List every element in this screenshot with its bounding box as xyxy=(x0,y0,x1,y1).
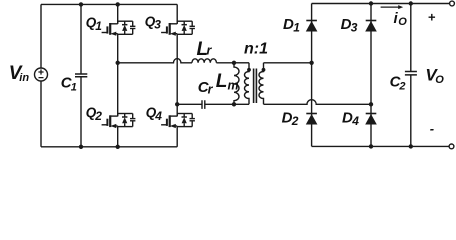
left rail upper xyxy=(40,4,42,68)
current arrow iO xyxy=(381,6,401,8)
wire Q3 source to node B xyxy=(176,34,178,104)
wire Lm node to primary top xyxy=(234,62,249,64)
svg-text:+: + xyxy=(428,10,436,25)
wire Cr to Lm bottom node xyxy=(205,103,234,105)
wire Lm bottom node to primary bottom xyxy=(234,103,249,105)
diode D1 xyxy=(306,21,318,32)
wire Q1 drain xyxy=(117,4,119,23)
node: Q1 drain junction xyxy=(116,2,120,6)
top rail (rectifier/output) xyxy=(312,3,450,5)
svg-text:1: 1 xyxy=(293,21,300,35)
output terminal - xyxy=(449,144,454,149)
capacitor C2 xyxy=(410,4,412,72)
wire D3-D4 leg xyxy=(370,4,372,147)
svg-text:n:1: n:1 xyxy=(244,40,268,57)
node B (leg B midpoint) xyxy=(175,102,179,106)
svg-text:O: O xyxy=(435,74,444,86)
svg-text:O: O xyxy=(398,16,407,28)
transistor Q2 xyxy=(102,114,136,129)
inductor Lm xyxy=(234,63,239,105)
transistor Q4 xyxy=(161,114,195,129)
wire node B to Cr xyxy=(177,103,202,105)
svg-text:1: 1 xyxy=(71,81,77,93)
capacitor C1 xyxy=(80,4,82,74)
svg-text:L: L xyxy=(216,71,228,92)
node: C2 bottom junction xyxy=(409,144,413,148)
node: C1 bottom junction xyxy=(79,145,83,149)
transformer secondary winding xyxy=(259,63,264,105)
svg-text:3: 3 xyxy=(351,21,358,35)
secondary polarity dot xyxy=(262,68,266,72)
transformer primary winding xyxy=(245,63,250,105)
wire Q4 source to bottom rail xyxy=(176,127,178,147)
node: Q2 source junction xyxy=(116,145,120,149)
left rail lower xyxy=(40,81,42,147)
svg-text:1: 1 xyxy=(95,19,102,33)
transistor Q1 xyxy=(102,21,136,36)
wire Q2 source to bottom rail xyxy=(117,127,119,147)
wire node B to Q4 drain xyxy=(176,104,178,116)
wire secondary bottom with hop over D1 leg xyxy=(264,100,372,105)
svg-text:in: in xyxy=(19,72,29,84)
svg-text:3: 3 xyxy=(154,18,161,32)
wire node A to Q2 drain xyxy=(117,63,119,117)
bottom rail (input bridge) xyxy=(41,146,177,148)
svg-text:2: 2 xyxy=(94,109,102,123)
svg-text:2: 2 xyxy=(398,80,405,92)
svg-text:m: m xyxy=(228,78,239,92)
capacitor Cr xyxy=(202,100,205,109)
transformer core xyxy=(254,69,257,104)
svg-text:r: r xyxy=(207,44,213,58)
node: secondary top junction on D1 leg xyxy=(309,61,313,65)
node A (leg A midpoint) xyxy=(116,61,120,65)
wire Lr to Lm node xyxy=(216,62,234,64)
node: Lm top junction xyxy=(232,61,236,65)
source Vin xyxy=(35,68,48,81)
transistor Q3 xyxy=(161,21,195,36)
node: Lm bottom junction xyxy=(232,102,236,106)
svg-text:2: 2 xyxy=(291,114,299,128)
wire Q1 source to node A xyxy=(117,34,119,63)
svg-text:4: 4 xyxy=(351,114,359,128)
bottom rail (rectifier/output) xyxy=(312,145,450,147)
node: D4 bottom junction xyxy=(369,144,373,148)
diode D4 xyxy=(365,114,377,125)
diode D2 xyxy=(306,114,318,125)
output terminal + xyxy=(450,1,455,6)
node: secondary bottom junction on D3 leg xyxy=(369,102,373,106)
svg-text:4: 4 xyxy=(154,109,162,123)
wire Q3 drain xyxy=(176,4,178,23)
node: C1 top junction xyxy=(79,2,83,6)
wire secondary top to rectifier xyxy=(264,62,312,64)
svg-text:r: r xyxy=(208,82,214,96)
diode D3 xyxy=(365,21,377,32)
wire node A to Lr with hop over leg B xyxy=(118,59,192,63)
primary polarity dot xyxy=(247,68,251,72)
top rail (input bridge) xyxy=(41,3,177,5)
inductor Lr xyxy=(192,59,216,63)
node: D3 top junction xyxy=(369,1,373,5)
wire D1-D2 leg xyxy=(311,4,313,147)
svg-text:-: - xyxy=(430,121,434,136)
node: C2 top junction xyxy=(409,1,413,5)
